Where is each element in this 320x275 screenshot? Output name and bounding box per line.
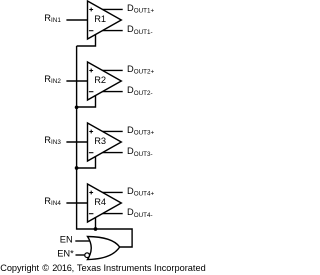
pin - of R2 — [89, 91, 94, 93]
wire DOUT2+ output — [102, 69, 122, 71]
wire DOUT1+ output — [102, 8, 122, 10]
receiver R2 — [88, 62, 122, 100]
svg-text:Copyright©2016,Texas Instrumen: Copyright©2016,Texas Instruments Incorpo… — [0, 263, 205, 273]
pin + of R3 — [89, 130, 93, 134]
wire DOUT3+ output — [102, 130, 122, 132]
pin - of R4 — [89, 213, 94, 215]
svg-text:R3: R3 — [94, 136, 106, 146]
wire enable bus and rail to gate output — [77, 46, 133, 247]
wire DOUT4- output — [102, 213, 122, 215]
wire RIN1 input — [66, 19, 88, 21]
wire enable tap R4 to rail — [95, 217, 97, 229]
wire DOUT4+ output — [102, 191, 122, 193]
svg-text:R4: R4 — [94, 197, 106, 207]
receiver R3 — [88, 123, 122, 161]
wire DOUT1- output — [102, 30, 122, 32]
svg-text:R2: R2 — [94, 75, 106, 85]
junction node R2 tap — [75, 105, 79, 109]
wire DOUT2- output — [102, 91, 122, 93]
inverter bubble on EN* — [85, 253, 90, 258]
wire DOUT3- output — [102, 152, 122, 154]
receiver R1 — [88, 1, 122, 39]
wire enable tap R1 to bus — [77, 34, 96, 46]
svg-text:EN: EN — [60, 235, 73, 245]
wire RIN4 input — [66, 202, 88, 204]
svg-text:R1: R1 — [94, 14, 106, 24]
wire RIN2 input — [66, 80, 88, 82]
pin + of R1 — [89, 8, 93, 12]
pin + of R4 — [89, 191, 93, 195]
or-gate U1 — [88, 237, 120, 260]
wire RIN3 input — [66, 141, 88, 143]
wire enable tap R2 to bus — [77, 95, 96, 107]
pin - of R1 — [89, 30, 94, 32]
pin - of R3 — [89, 152, 94, 154]
junction node R4 tap — [94, 227, 98, 231]
svg-text:EN*: EN* — [57, 249, 74, 259]
wire EN* input — [76, 254, 85, 256]
wire enable tap R3 to bus — [77, 156, 96, 168]
junction node R3 tap — [75, 166, 79, 170]
pin + of R2 — [89, 69, 93, 73]
wire EN input — [75, 240, 90, 242]
receiver R4 — [88, 184, 122, 222]
